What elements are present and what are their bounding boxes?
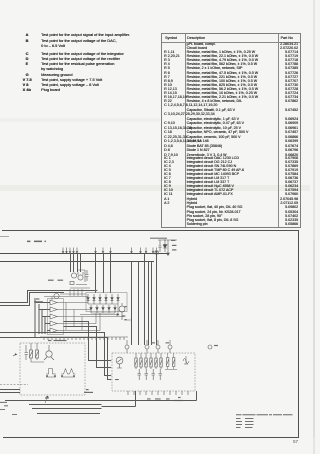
net tag B: [125, 306, 127, 307]
node C test point: [145, 345, 149, 349]
wire: test points into hybrid A2: [127, 340, 170, 353]
wire staircase: DAC outputs down to hybrid A2 inputs: [0, 322, 111, 380]
node V test point: [208, 345, 212, 349]
pin label -8V: [147, 398, 151, 399]
voltage note text: [236, 414, 293, 428]
wire stubs with arrows into supply bus (group 1): [62, 248, 78, 254]
wire: bottom rail 2: [29, 404, 102, 406]
wire: bottom rail 4: [32, 408, 102, 410]
annotation above frame: [150, 238, 167, 239]
wire: oscillator to DAC connections: [60, 289, 86, 296]
wire: bottom rail 1: [5, 391, 197, 401]
transistor Q2: [119, 303, 125, 320]
net tag +8V at E: [166, 342, 170, 343]
capacitor C18 at oscillator: [86, 270, 89, 281]
page number 57: [293, 439, 298, 444]
wire fan-in from left edge to DAC: [0, 291, 95, 338]
wire: bottom rail 5: [37, 413, 100, 415]
resistor R15 in A1: [36, 350, 39, 358]
wire: +5V supply bus: [0, 253, 168, 255]
net label +8V at node V: [214, 345, 218, 346]
waveform pictogram 1 in A1: [46, 369, 56, 378]
wire stubs with arrows into supply bus (group 2): [95, 248, 112, 254]
faint scan streaks: [0, 185, 310, 191]
dashed stub wire at left: [0, 384, 28, 386]
arrow mark at left: [13, 354, 17, 356]
analog switch IC2 buffers column: [50, 300, 62, 333]
hybrid A2 box: [112, 353, 195, 391]
transistor Q4: [54, 293, 59, 298]
wire stubs with arrows into supply bus (group 3): [131, 248, 158, 254]
label A1 SUM-HYB: [86, 389, 89, 390]
diode row D1-D6: [87, 294, 120, 304]
wire with arrow to IC2 label: [80, 314, 119, 316]
ground G arrow under A1: [45, 396, 49, 403]
hybrid A1 box: [20, 343, 85, 395]
pin label -8V (2): [166, 398, 170, 399]
resistor R20 in A2: [167, 358, 169, 367]
wire: long verticals to hybrid A2: [132, 254, 157, 346]
label SUM label in A2: [115, 379, 119, 380]
node B test point: [125, 345, 129, 349]
IC1 DAC package bottom edge with pins: [40, 337, 128, 340]
wire: left stub into A1: [0, 390, 20, 393]
A2 bottom pins: [128, 391, 188, 395]
node E test point: [168, 345, 172, 349]
capacitor row in A2: [138, 369, 162, 380]
pin label +7.5V: [155, 398, 161, 399]
waveform pictogram 2 in A1: [61, 369, 76, 378]
net label +5V: [171, 240, 175, 241]
parts list table: [161, 33, 301, 228]
wire: bottom rail 3: [102, 391, 136, 407]
schematic title (2) BNL 1: [27, 241, 46, 243]
left legend of test points: [0, 0, 160, 100]
label IC2: [122, 315, 125, 316]
resistor R14 in A1: [30, 350, 33, 358]
wire: A1 internal top connections: [26, 343, 44, 362]
IC2 switch array outline: [48, 299, 64, 335]
oscillator Q1 cluster: [70, 270, 90, 288]
net label +8V: [172, 245, 176, 246]
wire: bus under diode rows: [62, 303, 124, 317]
net tag C: [125, 319, 127, 320]
resistor bank R16-R19 in A2: [135, 358, 162, 367]
wire: A2 internal verticals: [136, 353, 161, 369]
label R5: [95, 290, 97, 291]
node D test point: [156, 345, 160, 349]
wire: left stub at 236: [0, 236, 9, 238]
label IC1 DAC 1230 LCD: [48, 340, 67, 341]
wire: verticals from bus to DAC ladder: [96, 253, 111, 293]
net label -8V: [172, 249, 176, 250]
resistor R21 in A2: [173, 358, 175, 367]
transistor Q3 in A1: [44, 345, 54, 360]
label A2 SUM-HYB: [178, 397, 181, 398]
supply decoupling cluster C26 C27 top right: [155, 239, 177, 255]
wire: A2 bank tops: [165, 353, 177, 370]
capacitor C13 in A1: [25, 348, 29, 360]
diode row D11-D14: [90, 305, 116, 313]
scan marks at left edge: [0, 402, 17, 414]
net label +15V (right): [58, 280, 64, 281]
net label +15V (left): [48, 280, 54, 281]
IC1 label: [36, 298, 39, 299]
wire: DAC ladder cross wiring: [44, 297, 132, 331]
amplifier stage in A2: [116, 357, 123, 368]
sine output pictogram in A2: [183, 356, 189, 364]
wire: -5V supply bus: [0, 261, 154, 263]
diode array outline: [86, 293, 127, 312]
page scan edge right: [313, 0, 315, 454]
wire: verticals from bus to oscillator cluster: [71, 253, 81, 272]
label X4b near bottom wires: [45, 397, 49, 398]
arrows into A2: [110, 360, 112, 381]
net tag +8V at D: [152, 342, 156, 343]
